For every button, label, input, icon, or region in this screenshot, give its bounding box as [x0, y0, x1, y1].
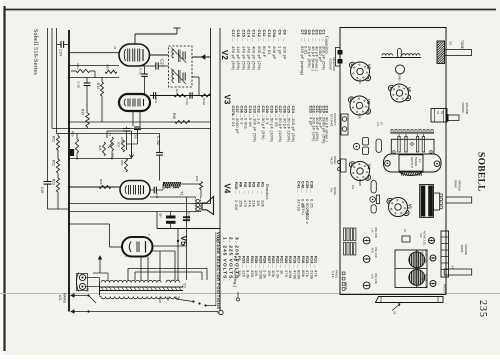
svg-text:....: .... [243, 190, 247, 194]
svg-text:R20: R20 [71, 131, 75, 137]
svg-text:TONE: TONE [460, 40, 464, 49]
svg-text:WAVE: WAVE [460, 245, 464, 253]
svg-text:R30: R30 [120, 160, 124, 166]
svg-text:....: .... [296, 189, 300, 193]
svg-text:MAINS: MAINS [63, 293, 67, 303]
svg-text:V1: V1 [408, 204, 413, 210]
svg-text:C27: C27 [160, 59, 165, 67]
svg-text:C49: C49 [155, 193, 159, 199]
svg-text:R10: R10 [234, 182, 239, 190]
svg-text:A.C.: A.C. [58, 295, 62, 301]
svg-text:LT.: LT. [380, 122, 384, 126]
svg-text:C 52: C 52 [156, 136, 161, 146]
svg-text:....: .... [283, 38, 287, 42]
svg-text:1. 245 VOLTS.: 1. 245 VOLTS. [222, 237, 228, 282]
svg-text:PANEL: PANEL [333, 187, 337, 196]
svg-text:S4: S4 [393, 311, 397, 315]
svg-text:VOLUME: VOLUME [465, 103, 469, 115]
svg-text:AERIAL COIL: AERIAL COIL [424, 274, 427, 289]
svg-text:R21: R21 [52, 136, 56, 142]
svg-text:2M [log.]: 2M [log.] [233, 270, 238, 287]
svg-text:C23: C23 [309, 106, 314, 114]
svg-text:....: .... [246, 38, 250, 42]
svg-text:....: .... [277, 38, 281, 42]
svg-text:QH: QH [159, 213, 163, 218]
svg-text:SOBELL: SOBELL [476, 152, 486, 192]
svg-text:R15: R15 [106, 65, 110, 71]
svg-text:4 pF: 4 pF [309, 117, 314, 126]
svg-text:R26: R26 [99, 179, 103, 185]
svg-text:M.W.: M.W. [371, 248, 374, 254]
svg-text:....: .... [257, 38, 261, 42]
svg-text:T1: T1 [180, 191, 185, 196]
svg-text:R13: R13 [76, 64, 80, 70]
svg-text:....: .... [256, 190, 260, 194]
svg-text:L.S.: L.S. [376, 122, 380, 127]
svg-text:V1: V1 [113, 46, 117, 50]
svg-text:0·01: 0·01 [231, 118, 236, 127]
svg-text:R22: R22 [52, 160, 56, 166]
svg-text:....: .... [252, 38, 256, 42]
svg-text:R32: R32 [195, 176, 199, 182]
svg-text:VOLTAGE: VOLTAGE [329, 58, 333, 70]
svg-text:....: .... [305, 189, 309, 193]
svg-text:32+32: 32+32 [296, 199, 301, 212]
svg-text:A.& E.: A.& E. [331, 271, 335, 279]
svg-text:6C9: 6C9 [358, 79, 361, 84]
svg-text:M.W.: M.W. [421, 251, 424, 257]
svg-text:....: .... [272, 38, 276, 42]
svg-text:C-25: C-25 [77, 82, 81, 89]
svg-text:V5: V5 [407, 87, 412, 93]
svg-text:V2: V2 [220, 50, 229, 60]
svg-text:525 pF [swing]: 525 pF [swing] [300, 46, 305, 75]
svg-text:V3: V3 [366, 99, 371, 105]
svg-text:....: .... [301, 189, 305, 193]
svg-text:V2: V2 [367, 64, 372, 70]
svg-text:....: .... [252, 190, 256, 194]
svg-text:EXT.SPKR.: EXT.SPKR. [330, 114, 334, 128]
svg-text:....: .... [267, 38, 271, 42]
svg-text:C40: C40 [187, 212, 192, 220]
svg-text:V4: V4 [223, 184, 232, 194]
svg-text:TRANS.: TRANS. [414, 157, 418, 167]
svg-text:430 pF (5%): 430 pF (5%) [231, 46, 236, 71]
svg-text:S4: S4 [451, 266, 455, 270]
svg-text:L.W.: L.W. [371, 228, 374, 233]
svg-text:C-30: C-30 [139, 68, 143, 75]
svg-text:R28: R28 [98, 145, 102, 151]
svg-text:T2: T2 [182, 283, 187, 289]
svg-text:AERIAL COIL: AERIAL COIL [423, 231, 426, 246]
svg-text:S.W.: S.W. [371, 274, 374, 279]
svg-text:R17: R17 [175, 89, 179, 95]
svg-text:S.W.: S.W. [419, 233, 422, 238]
svg-text:C7: C7 [300, 30, 305, 36]
svg-text:P.U.: P.U. [330, 188, 334, 193]
svg-text:SOCKETS: SOCKETS [333, 113, 337, 126]
svg-text:CHANGE: CHANGE [464, 244, 468, 255]
svg-text:V4: V4 [367, 164, 372, 170]
svg-text:OSC.COIL: OSC.COIL [374, 273, 377, 285]
svg-text:L.W.: L.W. [421, 276, 424, 281]
svg-text:V5: V5 [179, 236, 189, 247]
svg-text:R14: R14 [96, 83, 100, 89]
svg-text:BACK: BACK [344, 282, 348, 290]
svg-text:P2: P2 [233, 256, 238, 262]
svg-text:C48: C48 [40, 187, 44, 193]
svg-text:....: .... [262, 38, 266, 42]
svg-text:V3: V3 [223, 95, 232, 105]
svg-text:....: .... [239, 190, 243, 194]
svg-text:SELECTOR: SELECTOR [332, 57, 336, 71]
svg-text:C17: C17 [231, 30, 236, 38]
svg-text:....: .... [234, 190, 238, 194]
svg-text:OSC.COIL: OSC.COIL [374, 227, 377, 239]
svg-text:C41: C41 [296, 181, 301, 189]
svg-text:S1: S1 [86, 288, 90, 292]
svg-text:OUTPUT: OUTPUT [410, 157, 414, 168]
svg-text:OSC.COIL: OSC.COIL [374, 247, 377, 259]
svg-text:SPINDLE: SPINDLE [458, 180, 462, 191]
svg-text:2·2M: 2·2M [234, 200, 239, 210]
svg-text:DRIVE: DRIVE [454, 180, 458, 188]
svg-text:C24: C24 [59, 49, 63, 56]
svg-text:S2: S2 [440, 111, 444, 115]
svg-text:VOLTAGE SELECTOR POSITIONS: VOLTAGE SELECTOR POSITIONS [216, 232, 221, 309]
svg-text:P1: P1 [108, 133, 112, 137]
svg-text:....: .... [241, 38, 245, 42]
svg-text:AERIAL COIL: AERIAL COIL [424, 249, 427, 264]
svg-text:A.C.): A.C.) [306, 210, 310, 218]
svg-text:C31: C31 [154, 98, 158, 104]
svg-text:C-50: C-50 [185, 99, 189, 106]
svg-text:....: .... [233, 264, 237, 268]
svg-text:R16A: R16A [202, 98, 206, 105]
svg-text:T1.: T1. [418, 159, 422, 163]
svg-text:235: 235 [477, 300, 488, 318]
svg-text:R23: R23 [52, 179, 56, 185]
svg-text:....: .... [310, 189, 314, 193]
svg-text:PANEL: PANEL [335, 270, 339, 279]
svg-text:C55: C55 [134, 133, 138, 139]
svg-text:FRONT: FRONT [443, 284, 447, 293]
svg-text:2. 225 VOLTS.: 2. 225 VOLTS. [228, 237, 234, 282]
svg-text:6F18: 6F18 [358, 113, 361, 119]
svg-text:....: .... [300, 38, 304, 42]
svg-text:....: .... [261, 190, 265, 194]
svg-text:R19: R19 [81, 109, 85, 115]
svg-text:Sobell 516-Series: Sobell 516-Series [32, 29, 38, 75]
svg-text:ON/OFF: ON/OFF [461, 103, 465, 114]
svg-text:....: .... [236, 38, 240, 42]
svg-text:....: .... [231, 114, 235, 118]
svg-text:..: .. [309, 114, 313, 116]
svg-text:PANEL: PANEL [333, 156, 337, 165]
svg-text:R27: R27 [117, 142, 121, 148]
svg-text:S1: S1 [436, 111, 440, 115]
svg-text:EM80: EM80 [398, 74, 401, 81]
svg-text:P.U.: P.U. [351, 185, 355, 190]
svg-text:....: .... [247, 190, 251, 194]
svg-text:PILOT: PILOT [330, 157, 334, 165]
svg-text:6BW6: 6BW6 [358, 179, 361, 186]
svg-text:R18: R18 [172, 113, 176, 119]
svg-text:S3: S3 [449, 42, 453, 46]
svg-text:(275 v.): (275 v.) [301, 204, 305, 215]
svg-text:....: .... [231, 38, 235, 42]
